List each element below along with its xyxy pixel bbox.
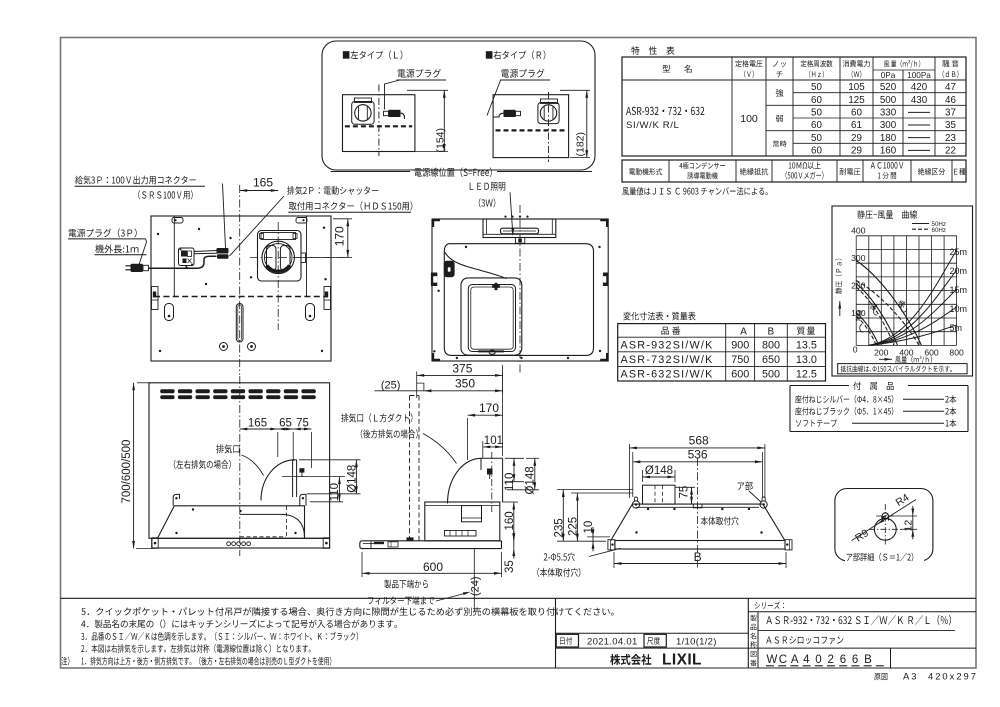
notch labels bbox=[776, 89, 784, 97]
svg-text:350: 350 bbox=[455, 376, 475, 390]
svg-text:110: 110 bbox=[504, 473, 516, 491]
lamp lens bbox=[501, 228, 539, 234]
title block divider main bbox=[747, 598, 749, 668]
product name column bbox=[757, 612, 759, 648]
svg-text:165: 165 bbox=[248, 417, 267, 429]
side base fittings bbox=[407, 537, 414, 540]
svg-text:330: 330 bbox=[880, 108, 897, 119]
svg-text:536: 536 bbox=[688, 447, 708, 461]
svg-text:75: 75 bbox=[679, 486, 691, 499]
rear right flange bbox=[324, 287, 331, 310]
dim 170 side bbox=[467, 418, 469, 460]
fan housing box bbox=[425, 502, 500, 541]
company name bbox=[610, 654, 651, 665]
side base front lip bbox=[370, 541, 372, 549]
detail centerlines bbox=[869, 528, 902, 530]
dim 375 bottom bbox=[416, 372, 418, 399]
accessories box bbox=[790, 385, 849, 387]
right-type duct connector bbox=[538, 103, 559, 124]
lamp bracket bbox=[515, 238, 524, 244]
svg-text:10m: 10m bbox=[950, 304, 968, 314]
supply 3P connector bbox=[217, 254, 229, 259]
terminal box bbox=[179, 248, 195, 266]
label exhaust connector bbox=[287, 186, 378, 195]
power cord bbox=[149, 267, 191, 269]
rear view screw dots bbox=[157, 233, 159, 235]
svg-text:160: 160 bbox=[504, 511, 516, 530]
filter outer frame bbox=[461, 278, 522, 355]
svg-text:75: 75 bbox=[296, 417, 309, 429]
rear slot center bbox=[236, 304, 243, 343]
svg-text:B: B bbox=[694, 550, 702, 564]
side duct pipe bbox=[481, 457, 503, 459]
front base plate bbox=[152, 538, 330, 548]
detail caption bbox=[845, 552, 924, 563]
svg-text:170: 170 bbox=[333, 226, 347, 246]
bottom side clip left bbox=[431, 273, 437, 287]
top base bar bbox=[615, 541, 785, 550]
svg-text:47: 47 bbox=[945, 82, 956, 93]
rear view centerline bbox=[239, 185, 241, 375]
label a-part bbox=[738, 481, 753, 490]
product series name bbox=[766, 636, 843, 644]
svg-text:ASR-932SI/W/K: ASR-932SI/W/K bbox=[621, 339, 714, 351]
svg-text:60: 60 bbox=[851, 108, 862, 119]
dim 600 side bbox=[361, 552, 363, 577]
svg-text:50: 50 bbox=[811, 82, 822, 93]
top plate dots bbox=[647, 508, 649, 510]
dimension table grid bbox=[618, 324, 826, 381]
rear view outline bbox=[151, 216, 331, 361]
fan outlet circles bbox=[262, 241, 294, 273]
svg-text:4: 4 bbox=[803, 654, 810, 666]
zuban row line bbox=[556, 647, 977, 649]
chart title bbox=[857, 210, 917, 219]
svg-text:(24): (24) bbox=[469, 576, 481, 596]
svg-text:29: 29 bbox=[851, 146, 862, 157]
svg-text:60Hz: 60Hz bbox=[932, 227, 946, 234]
svg-text:6: 6 bbox=[852, 654, 858, 666]
detail box bbox=[835, 489, 933, 561]
svg-text:568: 568 bbox=[689, 434, 709, 448]
right-type centerline bbox=[548, 92, 550, 162]
front body dots bbox=[192, 508, 194, 510]
svg-text:50: 50 bbox=[811, 133, 822, 144]
front body outline bbox=[158, 506, 305, 539]
svg-text:400: 400 bbox=[899, 348, 914, 358]
dim 350 bottom bbox=[417, 383, 424, 391]
fan performance curves bbox=[856, 261, 921, 346]
label LED bbox=[470, 182, 506, 191]
svg-text:6: 6 bbox=[840, 654, 846, 666]
svg-text:12: 12 bbox=[903, 520, 915, 532]
svg-text:35: 35 bbox=[504, 560, 516, 573]
svg-text:375: 375 bbox=[452, 361, 472, 375]
svg-text:5m: 5m bbox=[950, 323, 963, 333]
housing shutter bbox=[445, 531, 477, 537]
plug leader line bbox=[139, 239, 147, 265]
svg-text:22: 22 bbox=[945, 146, 956, 157]
exhaust port leader front bbox=[242, 455, 264, 476]
label left type (L) bbox=[343, 50, 403, 59]
left-type plug bbox=[389, 110, 401, 117]
svg-text:60: 60 bbox=[811, 146, 822, 157]
front duct damper bbox=[299, 468, 304, 472]
label SRS100V bbox=[138, 190, 192, 199]
front view wall panel bbox=[149, 383, 330, 539]
left-type plug leader bbox=[385, 80, 401, 110]
fan outlet shutter flap bbox=[261, 233, 296, 240]
dimension table header bbox=[661, 327, 680, 335]
detail R4 leader bbox=[881, 513, 889, 519]
svg-text:200: 200 bbox=[874, 348, 889, 358]
chart grid bbox=[855, 236, 857, 346]
svg-text:700/600/500: 700/600/500 bbox=[121, 440, 133, 504]
svg-text:29: 29 bbox=[851, 133, 862, 144]
svg-text:Ø148: Ø148 bbox=[525, 466, 537, 494]
front louver slots bbox=[160, 389, 174, 393]
dim 568 bbox=[628, 444, 630, 498]
dim 225 side bbox=[571, 492, 633, 494]
dim 110 front bbox=[310, 501, 343, 503]
svg-text:46: 46 bbox=[945, 95, 956, 106]
chart y-axis title bbox=[835, 259, 842, 294]
svg-text:2: 2 bbox=[828, 654, 834, 666]
left-type hood outline bbox=[343, 95, 415, 152]
dim 700/600/500 bbox=[137, 382, 151, 384]
svg-text:B: B bbox=[864, 654, 872, 666]
svg-text:A: A bbox=[740, 327, 747, 338]
fan housing motor bbox=[462, 506, 482, 522]
electrical spec strip grid bbox=[622, 160, 966, 182]
svg-text:13.0: 13.0 bbox=[796, 354, 817, 366]
svg-text:101: 101 bbox=[484, 435, 503, 447]
detail R9 leader bbox=[852, 500, 917, 541]
label HDS150 bbox=[289, 201, 413, 210]
label power-line position bbox=[415, 167, 492, 177]
left-type cord dashed line bbox=[345, 125, 412, 127]
svg-text:420x297: 420x297 bbox=[928, 671, 978, 682]
keyhole slot left bbox=[632, 501, 639, 508]
zuban column bbox=[757, 648, 759, 668]
label mounting hole top bbox=[701, 516, 739, 525]
top view centerline bbox=[697, 458, 699, 570]
title block divider notes bbox=[555, 598, 557, 668]
svg-text:100Pa: 100Pa bbox=[907, 71, 931, 80]
dimension table title bbox=[623, 312, 695, 320]
front body left hook bbox=[173, 494, 179, 505]
dim B bbox=[613, 552, 615, 568]
filter bottom leader bbox=[436, 593, 468, 602]
leader to supply connector bbox=[223, 184, 226, 249]
svg-text:170: 170 bbox=[479, 401, 499, 415]
rear slot left bbox=[165, 304, 174, 321]
leader 5.5 holes bbox=[589, 548, 620, 556]
chart box bbox=[832, 206, 973, 376]
model name cell bbox=[626, 107, 704, 115]
fan outlet side tab bbox=[301, 253, 306, 263]
dim 165-65-75 front bbox=[277, 432, 279, 457]
rear duct hidden lines bbox=[409, 396, 411, 541]
rear hem dashed band bbox=[154, 296, 328, 298]
svg-text:125: 125 bbox=[848, 95, 865, 106]
accessories items bbox=[795, 395, 893, 403]
bottom view corner marks bbox=[433, 220, 440, 227]
drawing number underscores bbox=[766, 665, 774, 667]
front duct pipe bbox=[292, 460, 294, 497]
svg-text:105: 105 bbox=[848, 82, 865, 93]
svg-text:60: 60 bbox=[811, 120, 822, 131]
date label box bbox=[556, 634, 578, 647]
accessories title bbox=[853, 382, 893, 390]
svg-text:100: 100 bbox=[740, 113, 758, 125]
filter clip cross bbox=[495, 283, 498, 290]
dots above lamp bbox=[504, 216, 506, 218]
label power plug 3P bbox=[69, 228, 137, 237]
dim 160 side bbox=[502, 501, 518, 503]
right-type plug bbox=[504, 110, 516, 117]
svg-text:225: 225 bbox=[567, 517, 579, 536]
top duct opening bbox=[643, 485, 676, 504]
product model text bbox=[766, 615, 951, 625]
original size note bbox=[874, 673, 887, 680]
svg-text:2021.04.01: 2021.04.01 bbox=[587, 637, 638, 648]
svg-text:W: W bbox=[767, 654, 778, 666]
svg-text:430: 430 bbox=[911, 95, 928, 106]
svg-text:12.5: 12.5 bbox=[796, 369, 817, 381]
fan outlet centerlines bbox=[277, 222, 279, 330]
svg-text:(25): (25) bbox=[381, 380, 401, 392]
front body inner curve bbox=[240, 514, 305, 536]
svg-text:520: 520 bbox=[880, 82, 897, 93]
top plate notch bbox=[693, 504, 702, 508]
dim 110 side bbox=[505, 457, 524, 459]
svg-text:Ø148: Ø148 bbox=[645, 465, 673, 477]
svg-text:65: 65 bbox=[279, 417, 292, 429]
chart caption box bbox=[838, 364, 967, 374]
dim 170 rear bbox=[333, 218, 352, 220]
connector cable bbox=[194, 251, 217, 252]
svg-text:C: C bbox=[779, 654, 787, 666]
svg-text:0: 0 bbox=[815, 654, 821, 666]
dim 10 side bbox=[587, 536, 610, 538]
svg-text:(154): (154) bbox=[434, 128, 446, 153]
front duct centerline h bbox=[282, 476, 345, 478]
svg-text:800: 800 bbox=[949, 348, 964, 358]
left-type dim (154) bbox=[407, 89, 448, 91]
rear view hanging tabs bbox=[172, 218, 183, 224]
svg-text:900: 900 bbox=[731, 339, 749, 351]
rear slot right bbox=[306, 304, 315, 321]
table title tokusei-hyou bbox=[631, 46, 674, 54]
svg-text:25m: 25m bbox=[950, 247, 968, 257]
svg-text:B: B bbox=[768, 327, 775, 338]
dim 165 rear bbox=[239, 185, 241, 192]
fan outlet square bbox=[258, 231, 302, 282]
label power plug left bbox=[398, 69, 441, 78]
bottom view centerline bbox=[519, 205, 521, 375]
zuban divider bbox=[890, 648, 892, 668]
notes text block bbox=[81, 607, 613, 616]
bottom view outline bbox=[432, 219, 608, 361]
bottom side clip right bbox=[603, 273, 608, 287]
power plug symbol bbox=[131, 264, 144, 272]
label cord length bbox=[95, 244, 138, 253]
svg-text:A3: A3 bbox=[903, 671, 918, 682]
chart legend bbox=[912, 223, 929, 225]
svg-text:50: 50 bbox=[811, 108, 822, 119]
front body right hook bbox=[300, 494, 306, 505]
rear left flange bbox=[152, 287, 159, 310]
svg-text:235: 235 bbox=[553, 518, 565, 537]
rear screw bosses bbox=[220, 343, 228, 351]
svg-text:SI/W/K R/L: SI/W/K R/L bbox=[626, 120, 680, 131]
label exhaust port front bbox=[216, 444, 239, 453]
svg-text:420: 420 bbox=[911, 82, 928, 93]
svg-text:160: 160 bbox=[880, 146, 897, 157]
label power plug right bbox=[501, 69, 544, 78]
svg-text:13.5: 13.5 bbox=[796, 339, 817, 351]
filter inner panel bbox=[468, 285, 515, 352]
svg-text:ASR-632SI/W/K: ASR-632SI/W/K bbox=[621, 369, 714, 381]
dim 536 bbox=[632, 452, 634, 497]
characteristics table grid bbox=[622, 57, 966, 156]
leader to exhaust connector bbox=[230, 196, 285, 256]
svg-text:600: 600 bbox=[423, 560, 443, 574]
dim phi148 front bbox=[299, 459, 361, 461]
dim (24) side bbox=[460, 548, 480, 550]
characteristics table header bbox=[662, 65, 670, 72]
curve label jaku bbox=[870, 303, 878, 311]
top view plate bbox=[611, 504, 785, 540]
bottom view dots bbox=[437, 290, 439, 292]
side duct elbow arc bbox=[448, 458, 482, 503]
dim 75 top bbox=[675, 486, 695, 488]
LED leader bbox=[510, 192, 513, 234]
scale label box bbox=[644, 634, 666, 647]
svg-text:650: 650 bbox=[762, 354, 780, 366]
chart x-axis title bbox=[879, 358, 892, 360]
title block top line bbox=[61, 597, 977, 599]
dim 35 side bbox=[513, 541, 515, 549]
svg-text:(182): (182) bbox=[574, 132, 586, 157]
power-line position box bbox=[322, 41, 595, 170]
lamp housing bbox=[483, 219, 556, 238]
date row line bbox=[556, 632, 749, 634]
svg-text:500: 500 bbox=[762, 369, 780, 381]
exhaust port side leader bbox=[423, 434, 457, 464]
label product bottom bbox=[384, 580, 428, 589]
svg-text:500: 500 bbox=[880, 95, 897, 106]
svg-text:23: 23 bbox=[945, 133, 956, 144]
label mounting holes paren bbox=[537, 568, 580, 577]
dim phi148 top bbox=[642, 470, 644, 482]
svg-text:600: 600 bbox=[924, 348, 939, 358]
label 5.5 holes bbox=[544, 552, 575, 561]
duct resistance curves bbox=[868, 250, 957, 345]
svg-text:165: 165 bbox=[253, 176, 273, 190]
svg-text:800: 800 bbox=[762, 339, 780, 351]
label supply connector bbox=[75, 176, 196, 185]
svg-text:0Pa: 0Pa bbox=[881, 71, 896, 80]
svg-text:300: 300 bbox=[880, 120, 897, 131]
right-type plug leader bbox=[487, 80, 512, 116]
filter latch bbox=[489, 350, 495, 354]
left-type centerline bbox=[378, 85, 380, 157]
right-type hood outline bbox=[493, 95, 568, 158]
fan outlet bottom shutter bbox=[267, 265, 290, 271]
electrical spec strip text bbox=[629, 168, 662, 175]
svg-text:1/10(1/2): 1/10(1/2) bbox=[676, 637, 717, 648]
product row divider bbox=[758, 629, 955, 631]
svg-text:110: 110 bbox=[329, 483, 341, 501]
svg-text:35: 35 bbox=[945, 120, 956, 131]
label exhaust port side bbox=[341, 413, 412, 422]
svg-text:600: 600 bbox=[731, 369, 749, 381]
exhaust 2P connector bbox=[217, 248, 229, 254]
fan outlet vanes bbox=[267, 246, 277, 271]
curve label tsuyo bbox=[897, 300, 905, 308]
keyhole slot right bbox=[760, 501, 767, 508]
right-type dim (182) bbox=[560, 89, 590, 91]
detail keyhole big circle bbox=[874, 518, 896, 540]
right-type cord dashed line bbox=[496, 129, 567, 131]
svg-text:400: 400 bbox=[851, 226, 866, 236]
label right type (R) bbox=[486, 50, 546, 59]
bottom opening s-curve bbox=[445, 252, 507, 278]
bottom panel outline bbox=[444, 244, 593, 356]
svg-text:60: 60 bbox=[811, 95, 822, 106]
series row bbox=[748, 611, 976, 613]
svg-text:37: 37 bbox=[945, 108, 956, 119]
front centerline bbox=[239, 376, 241, 556]
side duct centerline bbox=[491, 452, 493, 512]
dim phi148 side bbox=[526, 457, 539, 459]
note JIS measurement bbox=[622, 187, 767, 195]
side base plate bbox=[360, 541, 502, 549]
bottom switch bbox=[444, 261, 455, 277]
svg-text:61: 61 bbox=[851, 120, 862, 131]
curve label jouji bbox=[856, 310, 863, 322]
svg-text:0: 0 bbox=[853, 345, 858, 355]
dim 12 detail bbox=[890, 515, 917, 517]
svg-text:750: 750 bbox=[731, 354, 749, 366]
rear view inner panel lines bbox=[173, 216, 175, 297]
detail keyhole small circle bbox=[882, 513, 888, 519]
svg-text:ASR-732SI/W/K: ASR-732SI/W/K bbox=[621, 354, 714, 366]
svg-text:A: A bbox=[791, 654, 799, 666]
svg-text:180: 180 bbox=[880, 133, 897, 144]
front base vent holes bbox=[227, 542, 231, 546]
svg-text:10: 10 bbox=[583, 521, 595, 534]
svg-text:20m: 20m bbox=[950, 266, 968, 276]
svg-text:LIXIL: LIXIL bbox=[662, 652, 702, 669]
left-type duct connector bbox=[352, 102, 374, 125]
front duct elbow arc bbox=[261, 460, 295, 501]
side duct damper bbox=[487, 469, 493, 475]
dim 235 side bbox=[557, 489, 633, 491]
svg-text:Ø148: Ø148 bbox=[346, 465, 358, 493]
dim 101 side bbox=[482, 441, 484, 458]
